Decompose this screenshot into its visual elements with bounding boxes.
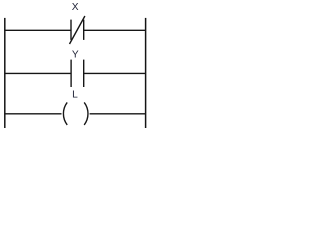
svg-text:Y: Y — [72, 49, 79, 60]
NC contact X slash — [70, 16, 85, 44]
NO contact Y left bar — [70, 60, 72, 87]
wire rung3 right — [90, 113, 146, 115]
NC contact X left bar — [70, 20, 72, 40]
wire rung1 left — [5, 29, 71, 31]
NO contact Y right bar — [83, 60, 85, 87]
right power rail — [145, 18, 147, 128]
coil L left arc — [63, 102, 67, 125]
wire rung2 right — [84, 72, 146, 74]
svg-text:X: X — [72, 2, 79, 13]
wire rung2 left — [5, 72, 71, 74]
wire rung1 right — [84, 29, 146, 31]
wire rung3 left — [5, 113, 62, 115]
coil L right arc — [84, 102, 88, 125]
left power rail — [4, 18, 6, 128]
NC contact X right bar — [83, 20, 85, 40]
svg-text:L: L — [72, 90, 78, 101]
